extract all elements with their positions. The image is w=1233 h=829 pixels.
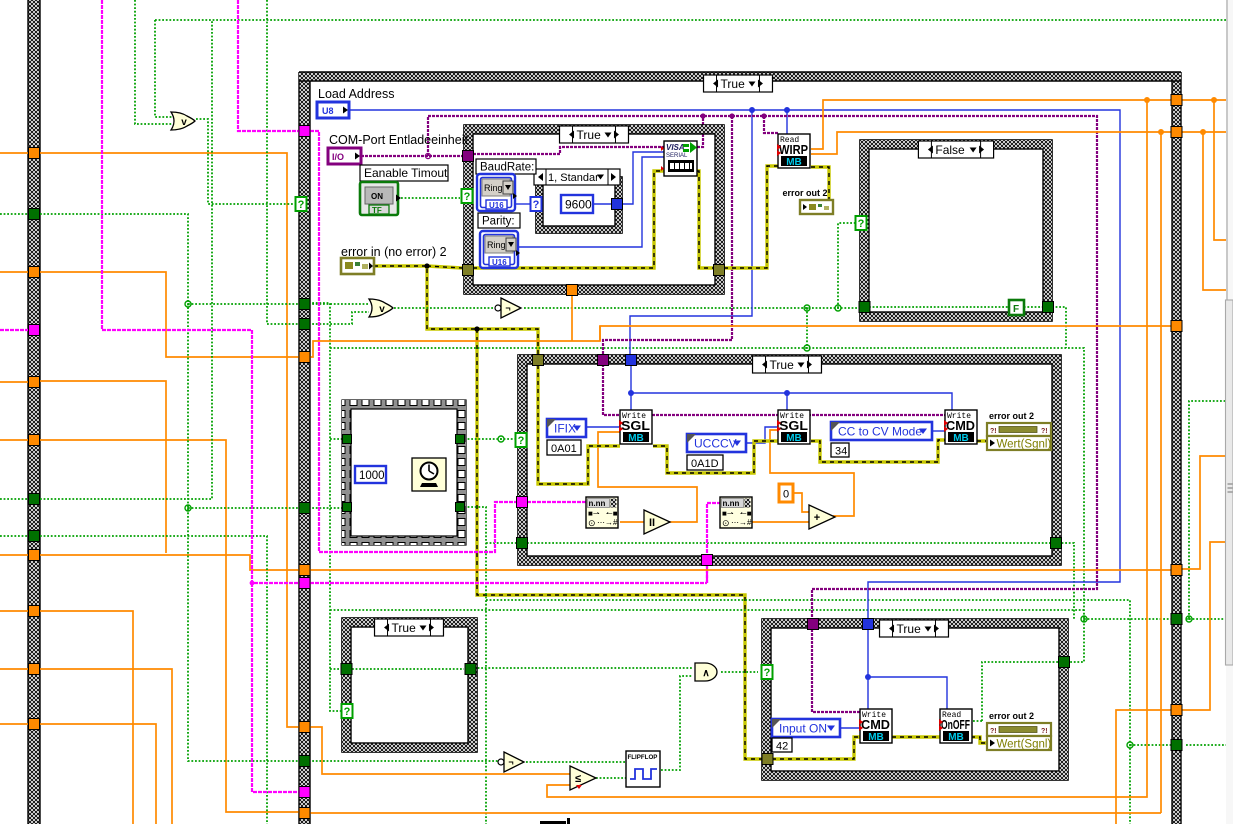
svg-text:?: ?: [518, 435, 525, 447]
svg-text:OnOFF: OnOFF: [941, 717, 970, 732]
svg-text:Ring: Ring: [484, 183, 503, 193]
svg-text:MB: MB: [868, 732, 884, 743]
svg-text:42: 42: [776, 741, 788, 753]
svg-text:1, Standar: 1, Standar: [548, 172, 599, 184]
svg-text:TF: TF: [372, 206, 382, 215]
svg-text:I/O: I/O: [332, 152, 344, 162]
svg-text:error out 2: error out 2: [989, 711, 1034, 721]
svg-text:Wert(Sgnl): Wert(Sgnl): [997, 439, 1052, 451]
svg-text:?!: ?!: [1041, 428, 1048, 435]
svg-text:MB: MB: [948, 732, 964, 743]
svg-text:UCCCV: UCCCV: [694, 437, 737, 451]
svg-text:1000: 1000: [359, 470, 385, 482]
svg-text:0: 0: [783, 489, 789, 501]
svg-text:F: F: [1013, 304, 1019, 315]
svg-text:MB: MB: [786, 433, 802, 444]
svg-text:↼■: ↼■: [740, 509, 752, 518]
svg-text:MB: MB: [628, 433, 644, 444]
svg-text:+: +: [814, 512, 820, 524]
svg-text:COM-Port Entladeeinheit: COM-Port Entladeeinheit: [329, 133, 468, 147]
svg-text:⊙: ⊙: [588, 518, 596, 528]
svg-text:U16: U16: [489, 201, 504, 210]
svg-text:FLIPFLOP: FLIPFLOP: [628, 754, 658, 761]
svg-text:34: 34: [835, 446, 847, 458]
svg-text:U16: U16: [492, 258, 507, 267]
svg-text:¬: ¬: [508, 757, 513, 767]
svg-text:SERIAL: SERIAL: [666, 153, 688, 159]
svg-text:False: False: [935, 143, 965, 157]
svg-text:SGL: SGL: [779, 418, 808, 433]
svg-text:?: ?: [858, 218, 865, 230]
svg-text:¬: ¬: [505, 303, 510, 313]
svg-text:?!: ?!: [990, 428, 997, 435]
svg-text:BaudRate:: BaudRate:: [480, 162, 534, 174]
svg-text:error out 2: error out 2: [782, 188, 827, 198]
svg-text:⋯→#: ⋯→#: [597, 518, 618, 527]
svg-text:error out 2: error out 2: [989, 411, 1034, 421]
svg-text:True: True: [721, 77, 746, 91]
svg-text:VISA: VISA: [666, 143, 685, 152]
svg-text:Ring: Ring: [487, 240, 506, 250]
svg-text:?: ?: [464, 191, 471, 203]
svg-text:n.nn: n.nn: [723, 499, 740, 508]
svg-text:True: True: [577, 128, 602, 142]
svg-text:■⇀: ■⇀: [722, 509, 734, 518]
svg-text:⋯→#: ⋯→#: [731, 518, 752, 527]
svg-text:MB: MB: [953, 433, 969, 444]
svg-text:9600: 9600: [565, 198, 592, 212]
svg-text:SGL: SGL: [621, 418, 650, 433]
svg-text:v: v: [379, 304, 385, 315]
svg-text:True: True: [770, 358, 795, 372]
svg-text:II: II: [649, 517, 655, 529]
svg-text:Load Address: Load Address: [318, 87, 394, 101]
svg-text:U8: U8: [322, 106, 334, 116]
svg-text:↼■: ↼■: [606, 509, 618, 518]
svg-text:IFIX: IFIX: [554, 422, 576, 436]
svg-text:?: ?: [298, 199, 305, 211]
svg-text:MB: MB: [786, 157, 802, 168]
svg-text:Wert(Sgnl): Wert(Sgnl): [997, 739, 1052, 751]
svg-text:≤: ≤: [575, 773, 581, 785]
svg-text:Parity:: Parity:: [482, 216, 515, 228]
svg-text:Eanable Timout: Eanable Timout: [364, 166, 448, 180]
svg-text:Input ON: Input ON: [779, 722, 827, 736]
svg-text:∧: ∧: [702, 668, 709, 679]
svg-text:?: ?: [533, 199, 540, 211]
svg-text:ON: ON: [371, 192, 383, 201]
svg-text:n.nn: n.nn: [589, 499, 606, 508]
svg-text:?: ?: [764, 667, 771, 679]
svg-text:?!: ?!: [990, 728, 997, 735]
svg-text:CMD: CMD: [946, 418, 975, 433]
svg-text:0A01: 0A01: [551, 443, 577, 455]
svg-text:True: True: [392, 621, 417, 635]
svg-text:⊙: ⊙: [722, 518, 730, 528]
svg-text:True: True: [897, 622, 922, 636]
svg-text:CC to CV Mode: CC to CV Mode: [838, 425, 922, 439]
svg-text:?: ?: [344, 706, 351, 718]
svg-text:CMD: CMD: [861, 717, 890, 732]
svg-text:WIRP: WIRP: [779, 142, 808, 157]
svg-text:■⇀: ■⇀: [588, 509, 600, 518]
svg-text:?!: ?!: [1041, 728, 1048, 735]
svg-text:0A1D: 0A1D: [691, 458, 719, 470]
svg-text:v: v: [181, 117, 187, 128]
